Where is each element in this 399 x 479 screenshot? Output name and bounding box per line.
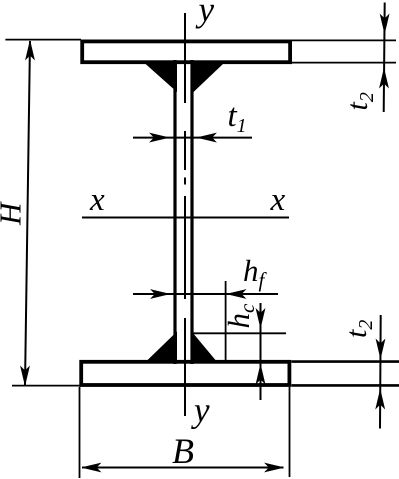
x axis <box>82 217 289 219</box>
fillet top-right <box>194 64 224 93</box>
t1 arrow right <box>150 133 169 142</box>
hc dimension line <box>260 303 262 400</box>
B arrow left <box>82 463 101 472</box>
svg-text:B: B <box>172 431 194 471</box>
H arrow up <box>26 41 35 60</box>
hf arrow right <box>151 290 170 299</box>
svg-text:y: y <box>191 391 210 430</box>
svg-text:x: x <box>89 182 105 218</box>
t2 bottom extension lines <box>292 360 399 363</box>
hf arrow left <box>227 290 246 299</box>
t2 bottom arrow down <box>376 340 385 359</box>
t2 top arrow down <box>380 15 389 34</box>
dimension H extension top <box>5 39 81 41</box>
dimension H line <box>25 41 30 385</box>
B arrow right <box>265 463 284 472</box>
svg-text:y: y <box>196 0 215 29</box>
dimension H extension bottom <box>12 385 80 387</box>
fillet top-left <box>145 64 177 93</box>
hf dimension line <box>133 293 278 295</box>
fillet bottom-right <box>193 333 218 363</box>
bottom flange <box>81 362 289 385</box>
t1 dimension line <box>133 137 252 139</box>
top flange <box>82 41 290 62</box>
hc arrow down <box>256 309 265 328</box>
svg-text:x: x <box>270 182 286 218</box>
t2 bottom dimension line <box>379 315 382 429</box>
t2 top arrow up <box>380 69 389 88</box>
y axis centerline <box>184 13 186 416</box>
t2 top extension lines <box>292 39 396 41</box>
web right wall <box>190 60 193 364</box>
dimension B extension right <box>289 387 291 477</box>
web left wall <box>173 60 176 364</box>
hf extension line <box>225 281 227 361</box>
dimension B line <box>82 467 284 469</box>
dimension B extension left <box>79 387 81 478</box>
H arrow down <box>21 367 30 386</box>
t2 bottom arrow up <box>376 390 385 409</box>
svg-text:H: H <box>0 201 28 226</box>
t2 top dimension line <box>384 3 385 113</box>
fillet bottom-left <box>145 332 177 363</box>
hc arrow up <box>256 365 265 384</box>
t1 arrow left <box>198 133 217 142</box>
hc horizontal line <box>193 332 287 334</box>
